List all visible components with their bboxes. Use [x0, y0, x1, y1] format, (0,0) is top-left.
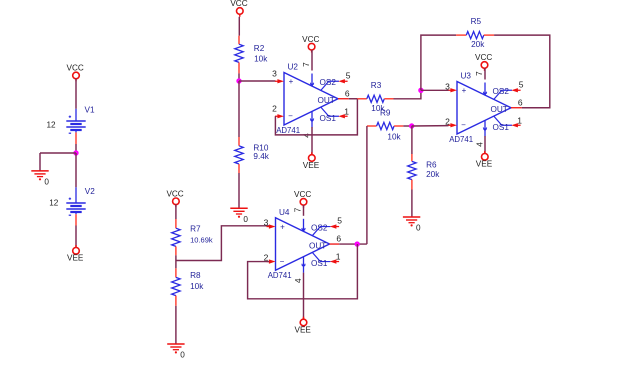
svg-text:U2: U2 — [288, 63, 299, 72]
svg-text:2: 2 — [445, 116, 450, 126]
svg-text:R8: R8 — [190, 271, 201, 280]
svg-text:VEE: VEE — [67, 254, 84, 263]
svg-text:R5: R5 — [471, 17, 482, 26]
svg-text:VEE: VEE — [303, 161, 320, 170]
svg-text:5: 5 — [519, 79, 524, 89]
svg-text:10.69k: 10.69k — [190, 236, 213, 245]
svg-text:R6: R6 — [426, 160, 437, 169]
svg-text:5: 5 — [346, 70, 351, 80]
svg-text:OUT: OUT — [309, 242, 326, 251]
svg-text:VCC: VCC — [294, 190, 311, 199]
svg-text:7: 7 — [302, 62, 311, 67]
svg-text:V1: V1 — [85, 105, 95, 114]
svg-text:OUT: OUT — [491, 105, 508, 114]
svg-text:VCC: VCC — [166, 189, 183, 198]
svg-text:10k: 10k — [190, 282, 204, 291]
svg-text:R3: R3 — [371, 81, 382, 90]
svg-text:OS2: OS2 — [320, 78, 337, 87]
svg-text:OUT: OUT — [318, 96, 335, 105]
svg-text:0: 0 — [180, 351, 185, 360]
svg-text:10k: 10k — [387, 133, 401, 142]
svg-text:OS1: OS1 — [311, 259, 328, 268]
svg-text:+: + — [462, 86, 467, 95]
svg-text:0: 0 — [44, 178, 49, 187]
svg-text:AD741: AD741 — [276, 126, 300, 135]
svg-text:VCC: VCC — [67, 64, 84, 73]
svg-text:−: − — [461, 121, 466, 130]
svg-text:R2: R2 — [254, 44, 265, 53]
svg-text:+: + — [280, 222, 285, 231]
svg-text:2: 2 — [272, 104, 277, 114]
svg-text:10k: 10k — [254, 54, 268, 63]
svg-text:OS1: OS1 — [493, 123, 510, 132]
svg-text:OS1: OS1 — [320, 114, 337, 123]
svg-text:12: 12 — [47, 120, 57, 129]
svg-text:6: 6 — [336, 234, 341, 244]
svg-text:OS2: OS2 — [493, 87, 510, 96]
svg-text:+: + — [289, 77, 294, 86]
svg-text:V2: V2 — [85, 187, 95, 196]
svg-text:U3: U3 — [461, 72, 472, 81]
svg-text:AD741: AD741 — [268, 271, 292, 280]
svg-text:VCC: VCC — [475, 53, 492, 62]
svg-text:1: 1 — [336, 252, 341, 262]
svg-text:1: 1 — [517, 115, 522, 125]
svg-text:0: 0 — [243, 215, 248, 224]
svg-text:−: − — [280, 257, 285, 266]
svg-text:6: 6 — [345, 88, 350, 98]
svg-text:3: 3 — [264, 218, 269, 228]
svg-text:20k: 20k — [471, 40, 485, 49]
svg-text:7: 7 — [475, 71, 484, 76]
svg-text:3: 3 — [272, 69, 277, 79]
svg-text:5: 5 — [337, 216, 342, 226]
svg-text:20k: 20k — [426, 170, 440, 179]
svg-text:1: 1 — [344, 106, 349, 116]
svg-text:7: 7 — [293, 207, 302, 212]
svg-text:6: 6 — [518, 97, 523, 107]
svg-text:OS2: OS2 — [311, 223, 328, 232]
svg-text:U4: U4 — [279, 208, 290, 217]
svg-text:−: − — [288, 112, 293, 121]
svg-text:VEE: VEE — [295, 325, 312, 334]
svg-text:4: 4 — [475, 142, 484, 147]
svg-text:VCC: VCC — [302, 35, 319, 44]
svg-text:AD741: AD741 — [449, 135, 473, 144]
svg-text:R9: R9 — [380, 108, 391, 117]
svg-text:0: 0 — [416, 224, 421, 233]
svg-text:9.4k: 9.4k — [253, 152, 269, 161]
svg-text:VCC: VCC — [230, 0, 247, 8]
svg-text:12: 12 — [49, 199, 59, 208]
svg-text:VEE: VEE — [476, 160, 493, 169]
svg-text:R7: R7 — [190, 225, 201, 234]
svg-text:4: 4 — [294, 278, 303, 283]
